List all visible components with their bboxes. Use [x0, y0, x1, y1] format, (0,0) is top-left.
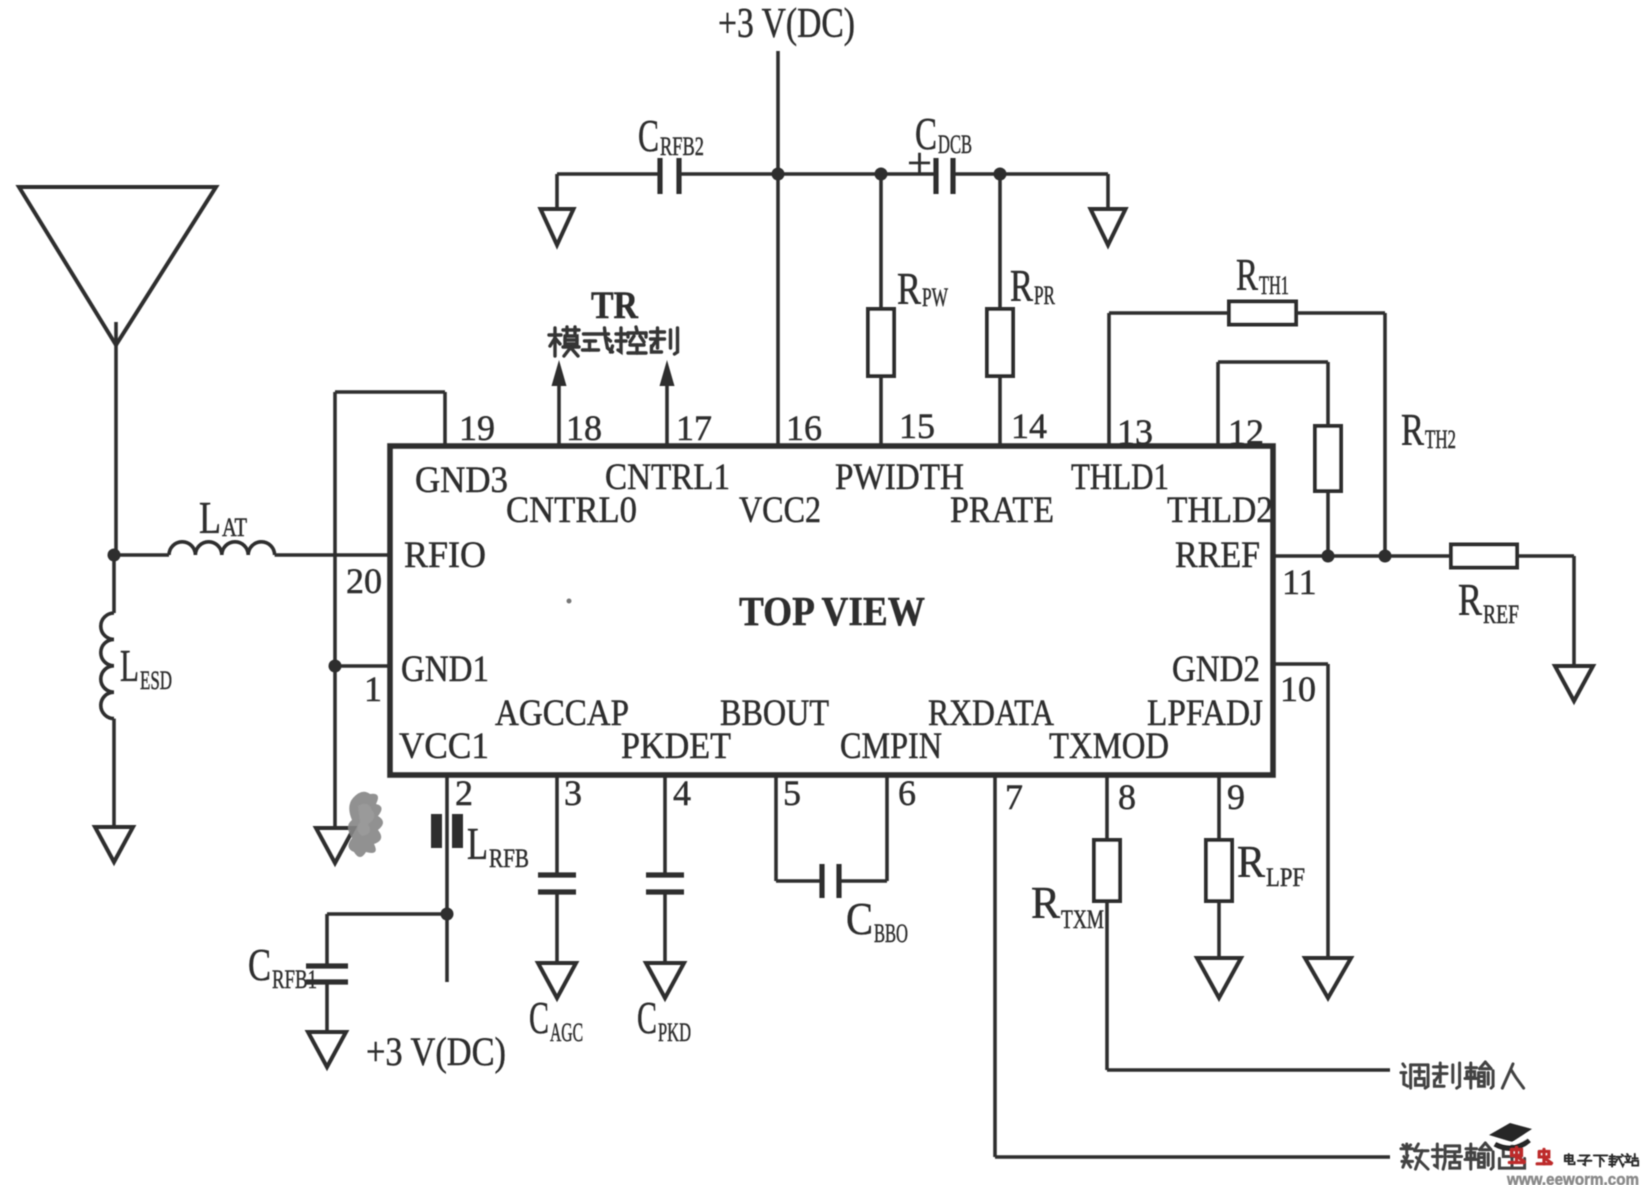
svg-text:VCC2: VCC2	[739, 490, 821, 531]
svg-text:C: C	[529, 992, 549, 1043]
svg-text:www.eeworm.com: www.eeworm.com	[1506, 1170, 1639, 1185]
svg-text:C: C	[638, 110, 659, 161]
svg-text:DCB: DCB	[938, 130, 972, 159]
svg-text:C: C	[846, 893, 873, 944]
svg-text:LPF: LPF	[1266, 863, 1305, 892]
svg-text:11: 11	[1282, 562, 1317, 602]
svg-text:ESD: ESD	[140, 666, 172, 695]
svg-text:VCC1: VCC1	[399, 726, 489, 767]
svg-text:TOP VIEW: TOP VIEW	[739, 588, 925, 634]
svg-text:17: 17	[676, 408, 712, 448]
svg-text:18: 18	[566, 408, 602, 448]
svg-text:R: R	[1237, 836, 1265, 887]
svg-text:TH2: TH2	[1425, 425, 1456, 454]
svg-text:THLD2: THLD2	[1167, 490, 1273, 531]
svg-text:AT: AT	[222, 513, 247, 542]
svg-text:TR: TR	[591, 284, 639, 327]
svg-text:10: 10	[1280, 669, 1316, 709]
svg-text:7: 7	[1005, 777, 1023, 817]
svg-text:13: 13	[1117, 412, 1153, 452]
svg-text:REF: REF	[1483, 600, 1519, 629]
svg-text:5: 5	[783, 773, 801, 813]
svg-text:+: +	[907, 141, 932, 187]
svg-text:PWIDTH: PWIDTH	[835, 457, 964, 498]
svg-text:GND2: GND2	[1172, 649, 1260, 690]
svg-text:BBOUT: BBOUT	[720, 693, 829, 734]
svg-text:R: R	[1236, 249, 1258, 300]
svg-text:+3 V(DC): +3 V(DC)	[366, 1029, 506, 1074]
svg-text:PKD: PKD	[658, 1018, 691, 1047]
svg-text:L: L	[120, 640, 139, 691]
svg-text:14: 14	[1011, 406, 1047, 446]
svg-text:PRATE: PRATE	[950, 490, 1054, 531]
svg-text:PR: PR	[1034, 281, 1055, 310]
svg-text:+3 V(DC): +3 V(DC)	[718, 1, 855, 47]
svg-text:THLD1: THLD1	[1071, 457, 1169, 498]
svg-text:20: 20	[346, 561, 382, 601]
svg-text:CMPIN: CMPIN	[840, 726, 942, 767]
svg-text:8: 8	[1118, 777, 1136, 817]
svg-text:RXDATA: RXDATA	[928, 693, 1054, 734]
svg-text:R: R	[1010, 260, 1033, 311]
svg-text:C: C	[637, 992, 657, 1043]
svg-text:R: R	[897, 263, 921, 314]
svg-text:TXM: TXM	[1061, 905, 1104, 934]
svg-text:RFB2: RFB2	[660, 132, 704, 161]
svg-text:16: 16	[786, 408, 822, 448]
svg-text:9: 9	[1227, 777, 1245, 817]
svg-text:RFIO: RFIO	[404, 535, 486, 576]
svg-text:AGC: AGC	[550, 1018, 583, 1047]
svg-text:PKDET: PKDET	[621, 726, 731, 767]
svg-text:RFB: RFB	[489, 844, 529, 873]
svg-text:RREF: RREF	[1175, 535, 1260, 576]
svg-text:GND3: GND3	[415, 460, 508, 501]
svg-text:19: 19	[459, 408, 495, 448]
svg-text:RFB1: RFB1	[272, 965, 317, 994]
svg-text:GND1: GND1	[401, 649, 489, 690]
svg-text:AGCCAP: AGCCAP	[495, 693, 629, 734]
svg-text:TH1: TH1	[1259, 271, 1289, 300]
svg-text:12: 12	[1228, 412, 1264, 452]
svg-text:L: L	[199, 492, 221, 543]
svg-text:R: R	[1458, 574, 1482, 625]
svg-text:1: 1	[364, 669, 382, 709]
svg-text:BBO: BBO	[874, 919, 908, 948]
svg-text:C: C	[248, 939, 271, 990]
svg-text:R: R	[1031, 877, 1060, 928]
svg-text:L: L	[467, 818, 488, 869]
svg-text:PW: PW	[922, 283, 948, 312]
svg-text:CNTRL0: CNTRL0	[506, 490, 637, 531]
svg-text:R: R	[1401, 404, 1424, 455]
svg-text:TXMOD: TXMOD	[1049, 726, 1169, 767]
svg-text:6: 6	[898, 773, 916, 813]
svg-text:15: 15	[899, 406, 935, 446]
svg-text:2: 2	[455, 773, 473, 813]
svg-text:4: 4	[673, 773, 691, 813]
svg-text:3: 3	[564, 773, 582, 813]
